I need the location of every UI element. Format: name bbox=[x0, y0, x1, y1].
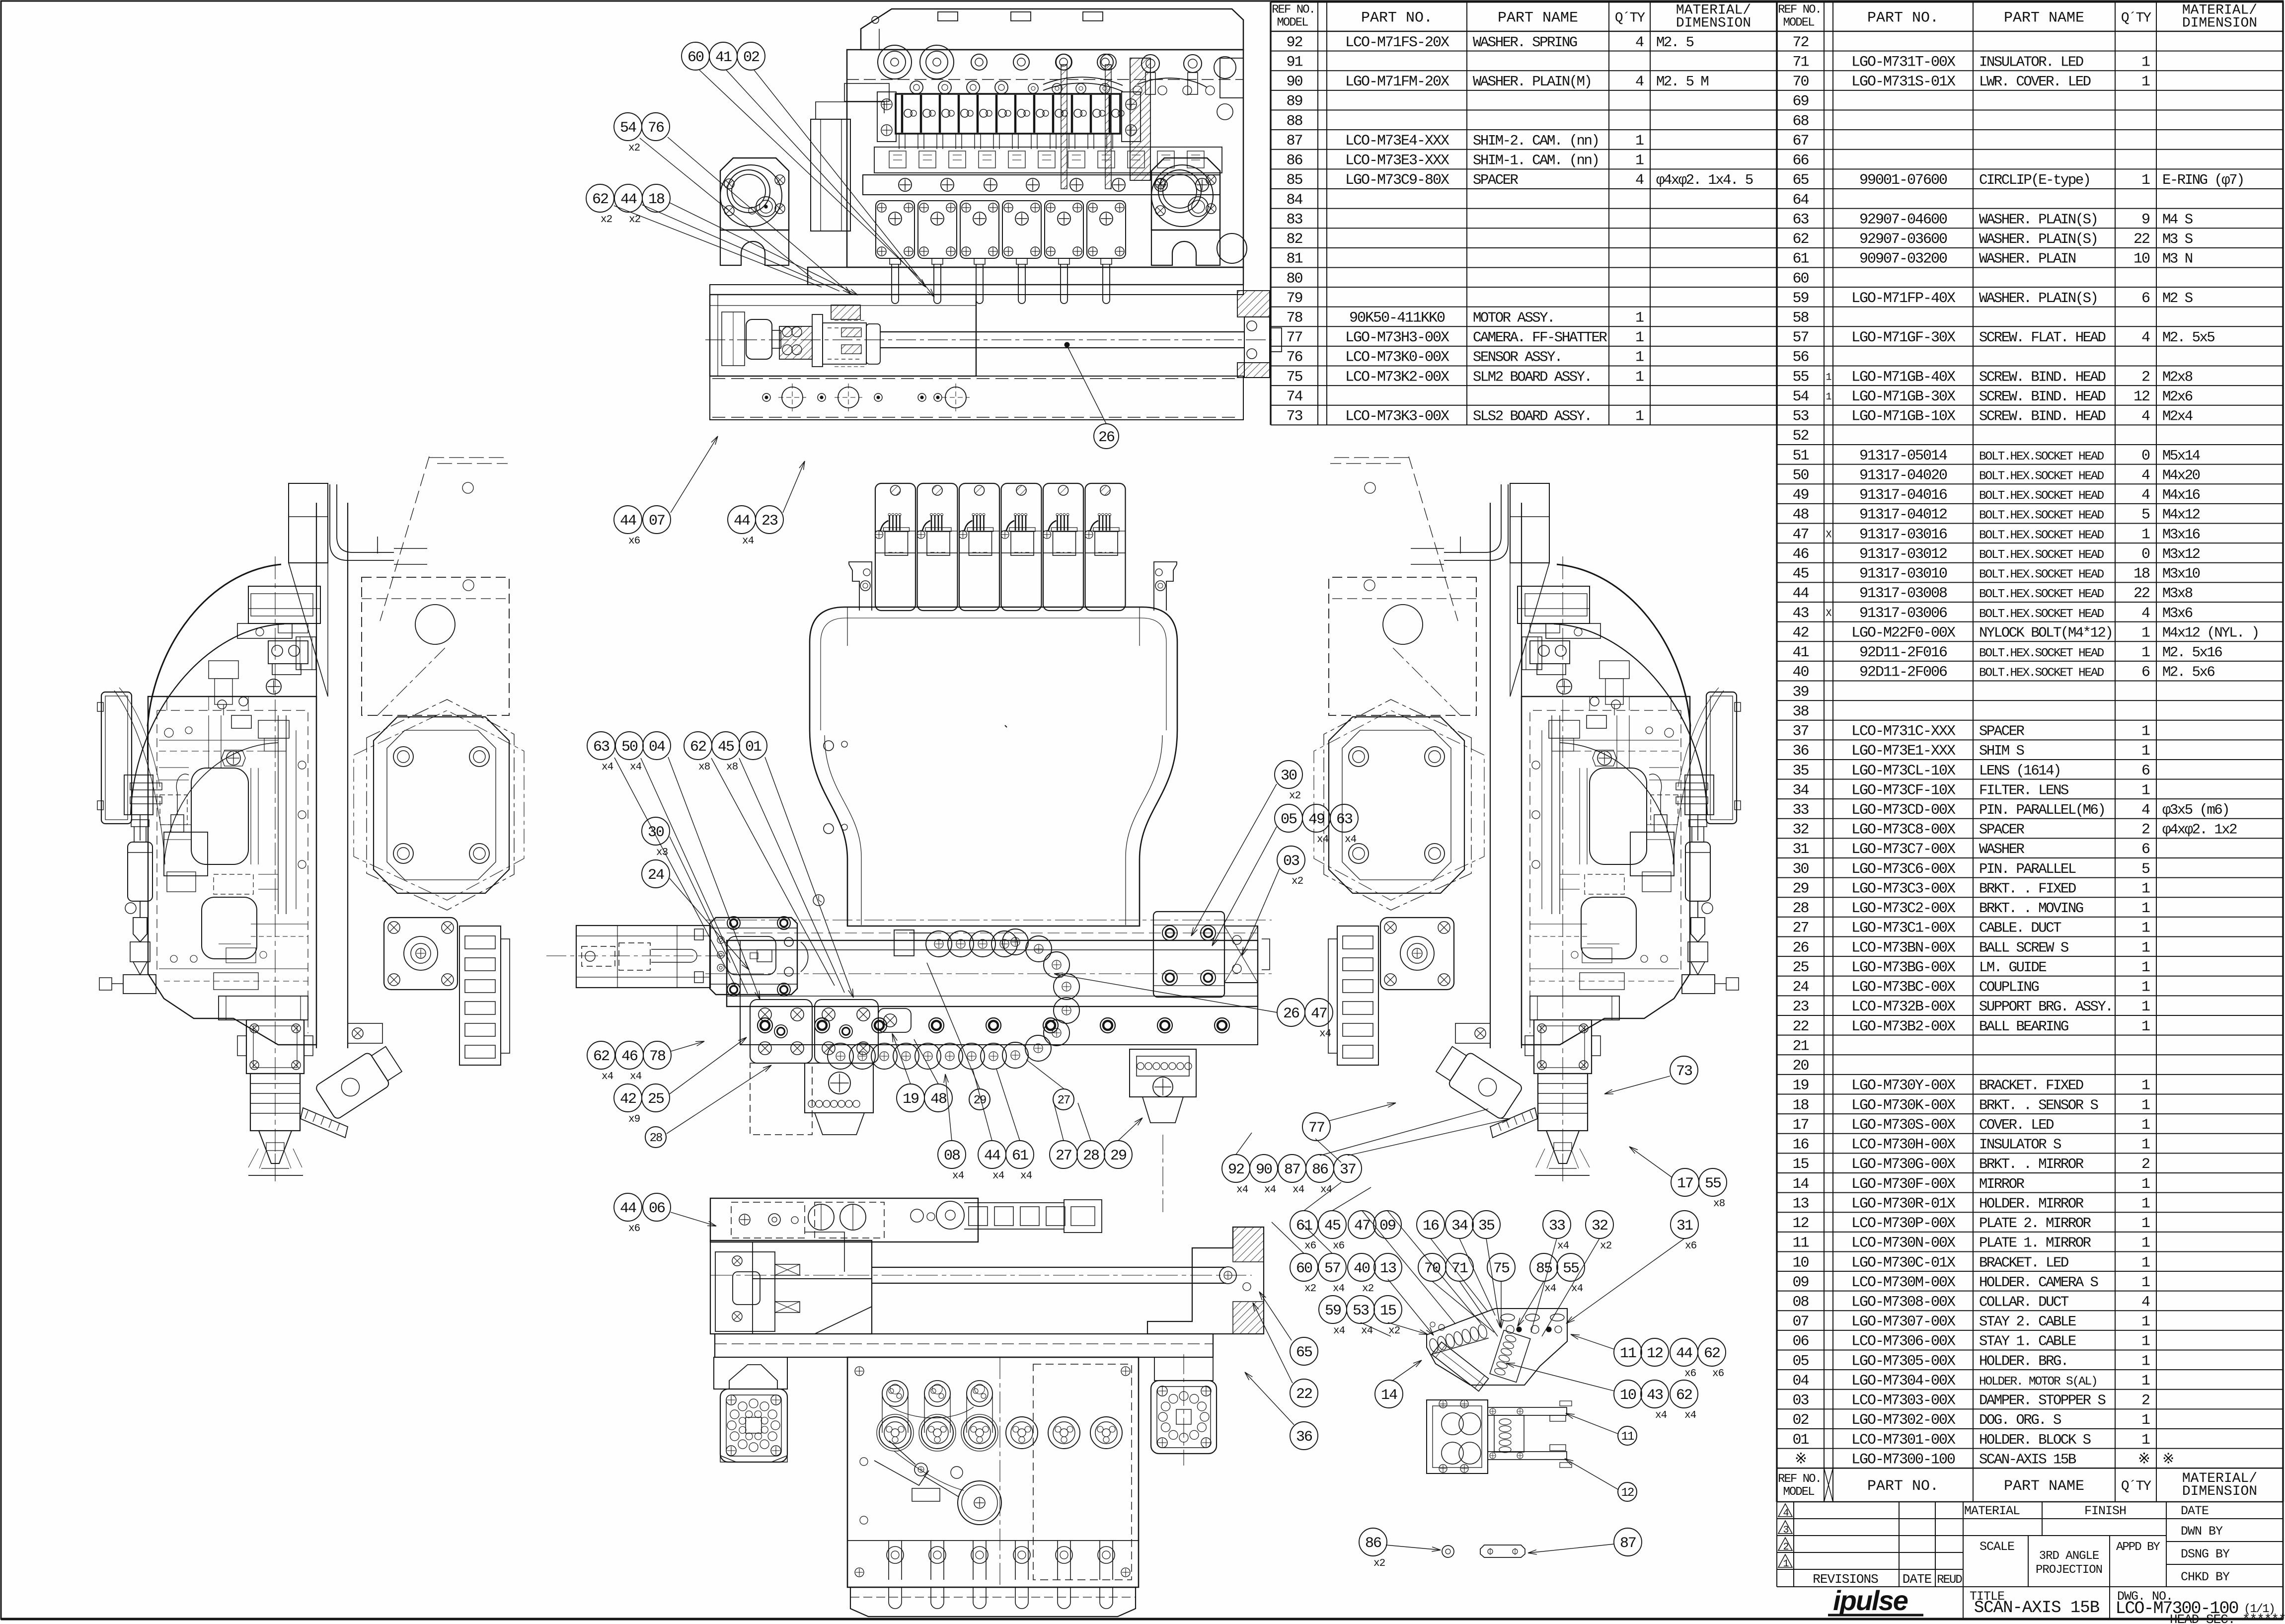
screw item 86 bbox=[1442, 1546, 1454, 1557]
svg-text:WASHER. PLAIN(M): WASHER. PLAIN(M) bbox=[1473, 74, 1591, 90]
mounting band bbox=[863, 175, 1220, 195]
svg-text:1: 1 bbox=[2141, 172, 2150, 189]
svg-text:86: 86 bbox=[1286, 153, 1302, 169]
left pedestal bracket bbox=[720, 158, 789, 230]
svg-text:M3x8: M3x8 bbox=[2162, 585, 2193, 602]
svg-text:SLS2 BOARD ASSY.: SLS2 BOARD ASSY. bbox=[1473, 408, 1591, 425]
svg-text:LGO-M7305-00X: LGO-M7305-00X bbox=[1851, 1353, 1956, 1370]
svg-text:DIMENSION: DIMENSION bbox=[2182, 16, 2257, 31]
svg-text:89: 89 bbox=[1286, 93, 1302, 110]
balloon 13 bbox=[1374, 1253, 1402, 1281]
svg-text:x6: x6 bbox=[1304, 1240, 1316, 1252]
svg-text:LGO-M73CF-10X: LGO-M73CF-10X bbox=[1851, 782, 1956, 799]
svg-text:2: 2 bbox=[1783, 1542, 1788, 1553]
LED array ladder bbox=[1337, 926, 1378, 1065]
svg-text:x8: x8 bbox=[1713, 1198, 1725, 1210]
detail views lower right bbox=[1426, 1309, 1572, 1557]
right side view (mirrored) bbox=[1314, 457, 1741, 1181]
svg-text:MODEL: MODEL bbox=[1783, 16, 1814, 30]
motor (side) bbox=[1380, 918, 1454, 990]
svg-text:FILTER. LENS: FILTER. LENS bbox=[1979, 782, 2068, 798]
svg-text:LGO-M73C6-00X: LGO-M73C6-00X bbox=[1851, 861, 1956, 878]
svg-text:77: 77 bbox=[1308, 1120, 1324, 1137]
svg-text:49: 49 bbox=[1792, 487, 1808, 504]
svg-text:4: 4 bbox=[2141, 802, 2150, 819]
svg-text:φ4xφ2. 1x4. 5: φ4xφ2. 1x4. 5 bbox=[1656, 172, 1753, 188]
phantom hexagon frame bbox=[1324, 699, 1471, 910]
svg-text:SCAN-AXIS 15B: SCAN-AXIS 15B bbox=[1974, 1599, 2100, 1618]
svg-text:35: 35 bbox=[1792, 763, 1809, 779]
svg-text:BOLT.HEX.SOCKET HEAD: BOLT.HEX.SOCKET HEAD bbox=[1979, 568, 2104, 582]
svg-text:03: 03 bbox=[1792, 1392, 1809, 1409]
left arm bbox=[576, 926, 710, 988]
svg-text:68: 68 bbox=[1792, 113, 1809, 130]
svg-text:MODEL: MODEL bbox=[1277, 16, 1308, 30]
svg-text:1: 1 bbox=[2141, 900, 2150, 917]
camera block bbox=[219, 996, 308, 1020]
svg-text:x4: x4 bbox=[1236, 1184, 1248, 1196]
svg-text:5: 5 bbox=[2141, 507, 2150, 524]
svg-text:BALL SCREW S: BALL SCREW S bbox=[1979, 939, 2068, 956]
svg-text:SHIM-1. CAM. (nn): SHIM-1. CAM. (nn) bbox=[1473, 153, 1599, 169]
svg-text:62: 62 bbox=[1792, 231, 1808, 248]
svg-text:83: 83 bbox=[1286, 211, 1302, 228]
lower gear box bbox=[847, 1357, 1139, 1587]
base plate bbox=[808, 267, 1243, 285]
svg-text:45: 45 bbox=[1324, 1218, 1341, 1235]
drive shaft bbox=[872, 1267, 1226, 1268]
balloon 28 bbox=[1077, 1141, 1105, 1168]
svg-text:REUD: REUD bbox=[1937, 1573, 1962, 1587]
bottom view (front elevation) bbox=[710, 1198, 1264, 1617]
svg-text:55: 55 bbox=[1705, 1175, 1721, 1192]
balloon 55 bbox=[1557, 1253, 1585, 1281]
window cutout 1 bbox=[1590, 768, 1647, 864]
svg-text:LGO-M731S-01X: LGO-M731S-01X bbox=[1851, 74, 1956, 90]
svg-text:M2x6: M2x6 bbox=[2162, 388, 2193, 405]
frame phantom outline bbox=[1460, 537, 1461, 556]
balloon 29 bbox=[969, 1089, 990, 1110]
svg-text:SPACER: SPACER bbox=[1473, 172, 1519, 188]
balloon 37 bbox=[1334, 1155, 1362, 1182]
balloon 28 bbox=[645, 1127, 666, 1148]
hanger brackets bbox=[849, 562, 872, 611]
svg-text:LGO-M73C7-00X: LGO-M73C7-00X bbox=[1851, 841, 1956, 858]
balloon 63 bbox=[1330, 804, 1358, 832]
balloon 11 bbox=[1614, 1338, 1642, 1366]
lower base band bbox=[710, 376, 1243, 420]
svg-text:87: 87 bbox=[1620, 1535, 1636, 1552]
svg-text:58: 58 bbox=[1792, 309, 1809, 326]
svg-text:BOLT.HEX.SOCKET HEAD: BOLT.HEX.SOCKET HEAD bbox=[1979, 647, 2104, 660]
svg-text:08: 08 bbox=[944, 1148, 960, 1164]
balloon 62 bbox=[1698, 1338, 1726, 1366]
svg-text:LCO-M730N-00X: LCO-M730N-00X bbox=[1851, 1235, 1956, 1252]
svg-text:COUPLING: COUPLING bbox=[1979, 979, 2039, 996]
damper cylinder bbox=[128, 842, 152, 901]
svg-text:28: 28 bbox=[1083, 1148, 1099, 1164]
svg-text:WASHER: WASHER bbox=[1979, 841, 2025, 857]
svg-text:1: 1 bbox=[2141, 526, 2150, 543]
balloon 57 bbox=[1318, 1253, 1346, 1281]
svg-text:22: 22 bbox=[1792, 1018, 1808, 1035]
svg-text:M2x8: M2x8 bbox=[2162, 369, 2193, 385]
balloon 22 bbox=[1290, 1379, 1318, 1407]
svg-text:14: 14 bbox=[1792, 1176, 1809, 1193]
revisions block bbox=[1777, 1502, 1963, 1587]
svg-text:SCREW. BIND. HEAD: SCREW. BIND. HEAD bbox=[1979, 369, 2105, 385]
svg-text:LGO-M73C1-00X: LGO-M73C1-00X bbox=[1851, 920, 1956, 937]
svg-text:4: 4 bbox=[2141, 1294, 2150, 1311]
svg-text:BRACKET. FIXED: BRACKET. FIXED bbox=[1979, 1078, 2083, 1094]
svg-text:x4: x4 bbox=[742, 536, 754, 547]
svg-text:1: 1 bbox=[2141, 1097, 2150, 1114]
balloon 47 bbox=[1305, 999, 1333, 1026]
balloon 12 bbox=[1641, 1338, 1669, 1366]
svg-text:33: 33 bbox=[1792, 802, 1809, 819]
svg-text:x8: x8 bbox=[698, 762, 710, 773]
svg-text:2: 2 bbox=[2141, 369, 2149, 386]
svg-text:WASHER. PLAIN: WASHER. PLAIN bbox=[1979, 251, 2076, 267]
balloon 45 bbox=[712, 732, 740, 760]
svg-text:ipulse: ipulse bbox=[1833, 1585, 1908, 1616]
svg-text:1: 1 bbox=[2141, 939, 2150, 956]
svg-text:60: 60 bbox=[687, 49, 704, 66]
gear unit right bbox=[1130, 1049, 1196, 1097]
svg-text:53: 53 bbox=[1353, 1303, 1369, 1319]
balloon 47 bbox=[1348, 1211, 1376, 1238]
svg-text:APPD BY: APPD BY bbox=[2116, 1541, 2160, 1554]
svg-text:86: 86 bbox=[1312, 1161, 1328, 1178]
left side view bbox=[1314, 457, 1741, 1181]
svg-text:40: 40 bbox=[1354, 1260, 1370, 1277]
svg-text:LGO-M731T-00X: LGO-M731T-00X bbox=[1851, 54, 1956, 71]
svg-text:30: 30 bbox=[1792, 861, 1809, 878]
svg-text:41: 41 bbox=[715, 49, 732, 66]
svg-text:M2. 5x5: M2. 5x5 bbox=[2162, 329, 2214, 346]
balloon 09 bbox=[1373, 1211, 1401, 1238]
svg-text:29: 29 bbox=[1792, 880, 1808, 897]
fitting connectors row bbox=[910, 81, 923, 94]
svg-text:13: 13 bbox=[1792, 1195, 1809, 1212]
svg-text:61: 61 bbox=[1792, 251, 1809, 268]
balloon 12 bbox=[1618, 1482, 1637, 1501]
svg-text:31: 31 bbox=[1676, 1218, 1693, 1235]
upper pulley row bbox=[882, 1381, 908, 1406]
svg-text:BOLT.HEX.SOCKET HEAD: BOLT.HEX.SOCKET HEAD bbox=[1979, 588, 2104, 601]
balloon 30 bbox=[1275, 761, 1302, 788]
svg-text:1: 1 bbox=[2141, 782, 2150, 799]
svg-text:02: 02 bbox=[1792, 1412, 1808, 1429]
svg-text:M2. 5x6: M2. 5x6 bbox=[2162, 664, 2214, 681]
svg-text:LGO-M73CL-10X: LGO-M73CL-10X bbox=[1851, 763, 1956, 779]
svg-text:91317-03006: 91317-03006 bbox=[1859, 605, 1947, 622]
upper bracket bbox=[248, 586, 320, 623]
balloon 24 bbox=[642, 860, 670, 888]
svg-text:62: 62 bbox=[592, 191, 608, 208]
svg-text:85: 85 bbox=[1286, 172, 1302, 189]
balloon 62 bbox=[587, 1041, 615, 1069]
left end plate bbox=[811, 119, 850, 231]
svg-text:4: 4 bbox=[2141, 605, 2150, 622]
svg-text:26: 26 bbox=[1098, 429, 1115, 446]
svg-text:39: 39 bbox=[1792, 684, 1808, 700]
svg-text:60: 60 bbox=[1792, 270, 1809, 287]
cover arc inner bbox=[1554, 624, 1707, 815]
svg-text:92: 92 bbox=[1286, 34, 1302, 51]
svg-text:44: 44 bbox=[620, 513, 636, 530]
svg-text:06: 06 bbox=[649, 1200, 665, 1217]
main body block bbox=[148, 696, 316, 1045]
svg-text:x4: x4 bbox=[630, 762, 642, 773]
svg-text:40: 40 bbox=[1792, 664, 1809, 681]
svg-text:25: 25 bbox=[1792, 959, 1809, 976]
svg-text:PART NAME: PART NAME bbox=[2004, 10, 2084, 27]
balloon 75 bbox=[1487, 1253, 1515, 1281]
balloon 02 bbox=[737, 42, 765, 70]
balloon 53 bbox=[1347, 1296, 1374, 1323]
svg-text:71: 71 bbox=[1792, 54, 1809, 71]
svg-text:80: 80 bbox=[1286, 270, 1302, 287]
svg-text:※: ※ bbox=[1795, 1451, 1806, 1468]
octagonal mounting plate bbox=[1329, 717, 1464, 893]
octagonal mounting plate bbox=[374, 717, 509, 893]
svg-text:BOLT.HEX.SOCKET HEAD: BOLT.HEX.SOCKET HEAD bbox=[1979, 548, 2104, 562]
svg-text:1: 1 bbox=[2141, 1373, 2150, 1390]
svg-text:PIN. PARALLEL(M6): PIN. PARALLEL(M6) bbox=[1979, 802, 2105, 818]
svg-text:DIMENSION: DIMENSION bbox=[1676, 16, 1751, 31]
svg-text:X: X bbox=[1826, 529, 1831, 541]
bottom flange bbox=[850, 1587, 1136, 1617]
svg-text:13: 13 bbox=[1380, 1260, 1396, 1277]
svg-text:1: 1 bbox=[1635, 329, 1644, 346]
svg-text:M2. 5: M2. 5 bbox=[1656, 34, 1694, 51]
svg-text:2: 2 bbox=[2141, 822, 2149, 839]
svg-text:27: 27 bbox=[1058, 1094, 1070, 1107]
right bearing block bbox=[1237, 291, 1270, 317]
balloon 31 bbox=[1671, 1211, 1698, 1238]
svg-text:1: 1 bbox=[2141, 74, 2150, 90]
svg-text:72: 72 bbox=[1792, 34, 1808, 51]
main pulley row bbox=[879, 1417, 911, 1449]
svg-text:6: 6 bbox=[2141, 763, 2150, 779]
balloon 26 bbox=[1277, 999, 1305, 1026]
svg-text:CIRCLIP(E-type): CIRCLIP(E-type) bbox=[1979, 172, 2090, 188]
svg-text:X: X bbox=[1826, 608, 1831, 619]
svg-text:30: 30 bbox=[648, 824, 664, 841]
svg-text:63: 63 bbox=[1336, 811, 1353, 828]
svg-text:43: 43 bbox=[1647, 1387, 1663, 1404]
svg-text:x4: x4 bbox=[1571, 1283, 1583, 1295]
svg-text:1: 1 bbox=[2141, 1215, 2150, 1232]
svg-text:M3x10: M3x10 bbox=[2162, 566, 2200, 582]
svg-text:75: 75 bbox=[1286, 369, 1302, 386]
svg-text:x6: x6 bbox=[1685, 1240, 1697, 1252]
svg-text:90: 90 bbox=[1256, 1161, 1272, 1178]
svg-text:59: 59 bbox=[1325, 1303, 1341, 1319]
balloon 15 bbox=[1374, 1296, 1402, 1323]
svg-text:63: 63 bbox=[593, 739, 609, 756]
svg-text:SHIM-2. CAM. (nn): SHIM-2. CAM. (nn) bbox=[1473, 133, 1599, 149]
svg-text:LCO-M731C-XXX: LCO-M731C-XXX bbox=[1851, 723, 1956, 740]
balloon 14 bbox=[1375, 1380, 1403, 1408]
svg-text:M2 S: M2 S bbox=[2162, 290, 2193, 307]
balloon 33 bbox=[1543, 1211, 1571, 1238]
svg-text:15: 15 bbox=[1380, 1303, 1396, 1319]
svg-text:x4: x4 bbox=[1319, 1028, 1331, 1040]
cable duct curve bbox=[330, 484, 394, 560]
svg-text:57: 57 bbox=[1792, 329, 1808, 346]
main body outline bbox=[847, 50, 1243, 267]
balloon 36 bbox=[1290, 1422, 1318, 1450]
lens barrel bbox=[1538, 1074, 1588, 1131]
svg-text:REF NO.: REF NO. bbox=[1272, 3, 1315, 17]
balloon 62 bbox=[684, 732, 712, 760]
svg-text:17: 17 bbox=[1792, 1117, 1808, 1134]
svg-text:M5x14: M5x14 bbox=[2162, 448, 2200, 464]
svg-text:LGO-M730F-00X: LGO-M730F-00X bbox=[1851, 1176, 1956, 1193]
cover arc outer bbox=[148, 564, 281, 726]
svg-text:CAMERA. FF-SHATTER: CAMERA. FF-SHATTER bbox=[1473, 329, 1607, 346]
carriage block bbox=[710, 918, 797, 995]
svg-text:LGO-M73C3-00X: LGO-M73C3-00X bbox=[1851, 880, 1956, 897]
balloon 44 bbox=[728, 506, 756, 534]
balloon 42 bbox=[614, 1084, 642, 1112]
detail: LED bracket assembly bbox=[1427, 1309, 1567, 1385]
svg-text:51: 51 bbox=[1792, 448, 1809, 464]
svg-text:M3x12: M3x12 bbox=[2162, 546, 2200, 562]
svg-text:6: 6 bbox=[2141, 664, 2150, 681]
svg-text:LGO-M71GF-30X: LGO-M71GF-30X bbox=[1851, 329, 1956, 346]
guide base with bolts bbox=[740, 1006, 1258, 1045]
plate item 87 bbox=[1480, 1545, 1525, 1557]
svg-text:81: 81 bbox=[1286, 251, 1302, 268]
left side view bbox=[97, 457, 524, 1181]
hatched push rods bbox=[1061, 65, 1067, 189]
svg-text:90K50-411KK0: 90K50-411KK0 bbox=[1349, 309, 1445, 326]
svg-text:2: 2 bbox=[2141, 1392, 2149, 1409]
svg-text:LGO-M73B2-00X: LGO-M73B2-00X bbox=[1851, 1018, 1956, 1035]
svg-text:DATE: DATE bbox=[2181, 1504, 2209, 1518]
svg-text:1: 1 bbox=[2141, 644, 2150, 661]
svg-text:LCO-M7303-00X: LCO-M7303-00X bbox=[1851, 1392, 1956, 1409]
phantom housing right bbox=[1329, 577, 1476, 715]
svg-text:1: 1 bbox=[1635, 133, 1644, 150]
svg-text:37: 37 bbox=[1792, 723, 1808, 740]
svg-text:LCO-M73K0-00X: LCO-M73K0-00X bbox=[1345, 349, 1449, 366]
svg-text:1: 1 bbox=[2141, 1432, 2150, 1449]
svg-text:LGO-M730C-01X: LGO-M730C-01X bbox=[1851, 1254, 1956, 1271]
svg-text:45: 45 bbox=[718, 739, 734, 756]
balloon 55 bbox=[1699, 1168, 1727, 1196]
svg-text:61: 61 bbox=[1012, 1148, 1028, 1164]
svg-text:x6: x6 bbox=[628, 536, 640, 547]
svg-text:2: 2 bbox=[2141, 1156, 2149, 1173]
svg-text:07: 07 bbox=[649, 513, 665, 530]
balloon 35 bbox=[1472, 1211, 1500, 1238]
svg-text:1: 1 bbox=[2141, 959, 2150, 976]
svg-text:M4x12: M4x12 bbox=[2162, 507, 2200, 523]
svg-text:WASHER. SPRING: WASHER. SPRING bbox=[1473, 34, 1577, 51]
svg-text:82: 82 bbox=[1286, 231, 1302, 248]
svg-text:11: 11 bbox=[1620, 1345, 1636, 1362]
svg-text:66: 66 bbox=[1792, 153, 1809, 169]
balloon 05 bbox=[1275, 804, 1302, 832]
svg-text:78: 78 bbox=[649, 1048, 666, 1065]
balloon 54 bbox=[614, 113, 642, 141]
cover arc outer bbox=[1557, 564, 1690, 726]
svg-text:44: 44 bbox=[734, 513, 750, 530]
svg-text:x2: x2 bbox=[1304, 1283, 1316, 1295]
svg-text:18: 18 bbox=[648, 191, 665, 208]
main plate outline bbox=[810, 607, 1177, 926]
motor assembly section bbox=[710, 295, 976, 376]
svg-text:10: 10 bbox=[1792, 1254, 1809, 1271]
svg-text:19: 19 bbox=[1792, 1078, 1808, 1094]
svg-text:43: 43 bbox=[1792, 605, 1809, 622]
damper cylinder bbox=[1685, 842, 1710, 901]
svg-text:11: 11 bbox=[1792, 1235, 1809, 1252]
phantom hexagon frame bbox=[367, 699, 514, 910]
svg-text:63: 63 bbox=[1792, 211, 1809, 228]
svg-text:34: 34 bbox=[1451, 1218, 1468, 1235]
svg-text:73: 73 bbox=[1286, 408, 1302, 425]
svg-text:1: 1 bbox=[2141, 1314, 2150, 1330]
svg-text:BRKT. . FIXED: BRKT. . FIXED bbox=[1979, 880, 2076, 897]
svg-text:x6: x6 bbox=[1333, 1240, 1345, 1252]
ball screw shaft bbox=[880, 331, 1244, 332]
svg-text:x4: x4 bbox=[1557, 1240, 1569, 1252]
svg-text:LGO-M73E1-XXX: LGO-M73E1-XXX bbox=[1851, 743, 1956, 760]
svg-text:21: 21 bbox=[1792, 1038, 1809, 1055]
svg-text:x8: x8 bbox=[726, 762, 738, 773]
svg-text:36: 36 bbox=[1792, 743, 1809, 760]
center view (scan axis front) bbox=[546, 483, 1272, 1212]
svg-text:LGO-M730R-01X: LGO-M730R-01X bbox=[1851, 1195, 1956, 1212]
svg-text:1: 1 bbox=[2141, 1195, 2150, 1212]
svg-text:04: 04 bbox=[649, 739, 665, 756]
svg-text:x2: x2 bbox=[1292, 876, 1303, 887]
svg-text:11: 11 bbox=[1621, 1430, 1634, 1444]
svg-text:SPACER: SPACER bbox=[1979, 822, 2025, 838]
svg-text:32: 32 bbox=[1592, 1218, 1607, 1235]
balloon 44 bbox=[614, 506, 642, 534]
svg-text:1: 1 bbox=[2141, 723, 2150, 740]
svg-text:33: 33 bbox=[1549, 1218, 1565, 1235]
svg-text:52: 52 bbox=[1792, 428, 1808, 445]
svg-text:45: 45 bbox=[1792, 566, 1809, 583]
svg-text:SHIM S: SHIM S bbox=[1979, 743, 2024, 759]
svg-text:76: 76 bbox=[1286, 349, 1302, 366]
svg-text:MATERIAL: MATERIAL bbox=[1964, 1504, 2020, 1518]
svg-text:LCO-M71FS-20X: LCO-M71FS-20X bbox=[1345, 34, 1449, 51]
svg-text:75: 75 bbox=[1493, 1260, 1510, 1277]
svg-text:LGO-M73H3-00X: LGO-M73H3-00X bbox=[1345, 329, 1449, 346]
svg-text:1: 1 bbox=[2141, 54, 2150, 71]
svg-text:1: 1 bbox=[1635, 309, 1644, 326]
svg-text:x4: x4 bbox=[1317, 834, 1329, 846]
svg-text:27: 27 bbox=[1792, 920, 1808, 937]
valve bank bbox=[896, 94, 1120, 134]
svg-text:x4: x4 bbox=[1020, 1170, 1032, 1182]
balloon 85 bbox=[1530, 1253, 1558, 1281]
svg-text:M3x6: M3x6 bbox=[2162, 605, 2193, 621]
svg-text:0: 0 bbox=[2141, 448, 2150, 464]
svg-text:05: 05 bbox=[1792, 1353, 1809, 1370]
svg-text:1: 1 bbox=[2141, 1254, 2150, 1271]
svg-text:LGO-M7307-00X: LGO-M7307-00X bbox=[1851, 1314, 1956, 1330]
svg-text:50: 50 bbox=[621, 739, 638, 756]
